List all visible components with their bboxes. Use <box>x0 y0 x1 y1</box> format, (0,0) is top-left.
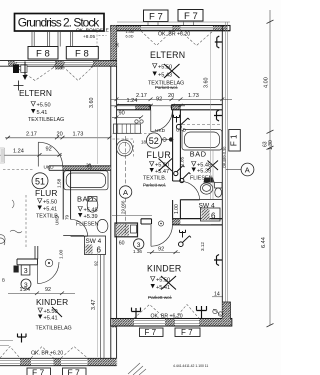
svg-text:OK. BR +6.20: OK. BR +6.20 <box>158 32 190 38</box>
svg-text:79: 79 <box>65 214 70 220</box>
svg-text:1.85: 1.85 <box>180 156 186 166</box>
svg-text:29.066: 29.066 <box>121 200 126 214</box>
svg-text:52: 52 <box>149 136 159 146</box>
svg-text:18: 18 <box>141 140 147 145</box>
svg-text:+5.41: +5.41 <box>44 316 58 322</box>
svg-text:ELTERN: ELTERN <box>19 88 52 98</box>
svg-text:4.00: 4.00 <box>264 77 270 88</box>
svg-text:20: 20 <box>57 132 63 138</box>
svg-text:F 7: F 7 <box>184 11 198 22</box>
svg-text:60: 60 <box>119 240 125 246</box>
svg-text:Grundriss 2. Stock: Grundriss 2. Stock <box>18 16 101 30</box>
svg-text:TEXTILB.: TEXTILB. <box>143 176 166 182</box>
svg-text:UKD: UKD <box>155 128 166 134</box>
svg-text:51: 51 <box>35 176 45 186</box>
svg-text:F 7: F 7 <box>68 368 81 375</box>
svg-text:F 1: F 1 <box>230 134 239 146</box>
svg-text:+8.05: +8.05 <box>83 34 95 40</box>
svg-text:14: 14 <box>214 291 220 297</box>
svg-text:SW 4: SW 4 <box>86 238 102 245</box>
svg-text:BAD: BAD <box>190 149 207 158</box>
svg-text:92: 92 <box>94 260 99 266</box>
svg-text:+5.50: +5.50 <box>37 103 51 109</box>
svg-text:1.24: 1.24 <box>127 98 138 104</box>
svg-text:BAD: BAD <box>77 195 94 204</box>
svg-text:90: 90 <box>119 111 125 117</box>
svg-text:A: A <box>123 188 128 197</box>
svg-text:1.58: 1.58 <box>57 178 63 188</box>
svg-text:3.47: 3.47 <box>91 300 97 311</box>
svg-text:1.73: 1.73 <box>188 93 199 99</box>
svg-text:UKD: UKD <box>55 215 60 225</box>
svg-text:F 7: F 7 <box>32 368 45 375</box>
svg-text:OK. RONDELE: OK. RONDELE <box>76 28 109 34</box>
svg-text:FLUR: FLUR <box>35 188 58 198</box>
svg-text:ELTERN: ELTERN <box>150 50 185 60</box>
svg-text:TEXTILBELAG: TEXTILBELAG <box>28 117 64 123</box>
svg-text:3: 3 <box>24 268 28 275</box>
svg-text:B: B <box>2 278 5 283</box>
svg-text:6.44: 6.44 <box>261 237 267 248</box>
svg-text:+5.41: +5.41 <box>43 207 57 213</box>
svg-text:F 8: F 8 <box>75 48 89 59</box>
svg-text:1.30: 1.30 <box>268 140 274 150</box>
svg-text:F 8: F 8 <box>36 48 50 59</box>
svg-text:2.17: 2.17 <box>136 93 147 99</box>
svg-text:Parkett wol.: Parkett wol. <box>143 183 166 188</box>
svg-text:F 7: F 7 <box>149 12 163 23</box>
svg-text:OK.BR+0.90: OK.BR+0.90 <box>222 147 226 168</box>
svg-text:6.0D: 6.0D <box>126 35 134 39</box>
svg-text:2.17: 2.17 <box>26 132 37 138</box>
svg-text:Parkett wol.: Parkett wol. <box>148 295 172 300</box>
svg-text:1.24: 1.24 <box>20 287 31 293</box>
svg-text:1.73: 1.73 <box>73 132 84 138</box>
svg-text:KINDER: KINDER <box>36 297 68 307</box>
svg-text:92: 92 <box>45 287 51 293</box>
svg-text:Parkett wol.: Parkett wol. <box>155 85 178 90</box>
svg-text:6: 6 <box>211 212 216 221</box>
svg-text:UKD: UKD <box>44 165 55 171</box>
svg-text:3.60: 3.60 <box>89 98 95 109</box>
svg-text:92: 92 <box>158 246 164 252</box>
svg-text:A: A <box>245 166 250 175</box>
svg-text:3.12: 3.12 <box>200 242 205 251</box>
svg-text:FLIESEN: FLIESEN <box>76 222 99 228</box>
svg-text:KINDER: KINDER <box>147 264 181 274</box>
svg-text:92: 92 <box>46 147 52 153</box>
svg-text:20: 20 <box>168 93 174 99</box>
svg-text:OK. BR +6.20: OK. BR +6.20 <box>151 314 183 320</box>
svg-text:3.60: 3.60 <box>203 78 209 89</box>
svg-text:TEXTILBELAG: TEXTILBELAG <box>36 326 72 332</box>
svg-text:+5.39: +5.39 <box>84 214 98 220</box>
svg-text:+5.50: +5.50 <box>43 200 57 206</box>
svg-text:SW 4: SW 4 <box>199 203 215 210</box>
svg-text:92: 92 <box>156 97 162 103</box>
svg-text:OK. BR +6.20: OK. BR +6.20 <box>31 351 63 357</box>
svg-text:+5.47: +5.47 <box>155 169 169 175</box>
svg-text:5.41: 5.41 <box>37 110 48 116</box>
svg-text:3: 3 <box>137 242 141 249</box>
svg-text:1.36: 1.36 <box>133 249 142 254</box>
svg-text:F 7: F 7 <box>145 328 157 337</box>
svg-text:1.4M: 1.4M <box>126 30 134 34</box>
svg-text:30: 30 <box>115 42 120 47</box>
svg-text:4.441.4411.42 1.100 11: 4.441.4411.42 1.100 11 <box>173 364 208 368</box>
svg-text:1.00: 1.00 <box>174 204 180 214</box>
svg-text:+5.39: +5.39 <box>197 169 211 175</box>
svg-text:1.24: 1.24 <box>13 149 24 155</box>
svg-text:F 7: F 7 <box>181 328 193 337</box>
svg-text:1.00: 1.00 <box>59 249 65 259</box>
